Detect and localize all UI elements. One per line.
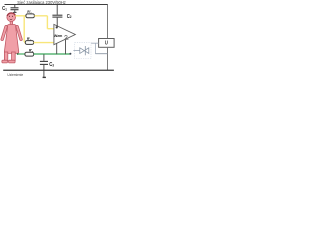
capacitor C1 [11,5,19,13]
C2 lead inside amp [56,25,58,27]
green wire end tip [69,53,71,55]
right foot [9,60,16,63]
squiggle mark inside amp [65,35,69,39]
electrode box A [26,14,35,18]
svg-text:Uziemienie: Uziemienie [7,73,23,77]
wire amp ground pin 2 to green [65,40,67,54]
hair [7,13,15,16]
wire yellow lead B to amp [34,42,54,44]
isolation symbol bowtie [80,48,89,54]
right arm [16,25,23,41]
isolation symbol stub left [73,50,79,52]
wire mains line top [5,4,108,6]
svg-text:Wzm: Wzm [54,34,63,38]
wire isolation to ground branch [91,43,99,54]
junction body-green [17,53,19,55]
electrode box B [25,41,33,45]
wire yellow lead A to amp [34,16,53,29]
face features [9,16,13,20]
earth line [3,69,114,71]
junction dot C2 on + input [56,26,58,28]
neck [10,21,12,25]
source box U [99,39,115,48]
svg-text:C1: C1 [2,6,7,13]
svg-text:Sieć zasilająca 230V/50Hz: Sieć zasilająca 230V/50Hz [17,0,65,5]
earth bar [43,76,46,78]
earth stub below ground [43,70,45,77]
wire U box to earth [107,47,109,70]
left leg [4,52,7,61]
head [7,13,16,22]
op-amp Wzm (amplifier) [54,24,75,44]
wire ground return horizontal [95,53,107,55]
electrode pad on head [13,11,16,13]
svg-text:C2: C2 [67,13,72,20]
capacitor C2 [52,5,62,28]
right leg [12,52,16,61]
torso [4,25,18,54]
left arm [1,25,8,41]
wire green to isolation [34,53,71,55]
wire yellow branch to electrode B [24,16,25,43]
electrode box C [25,52,34,56]
wire mains drop right [107,5,109,39]
isolation barrier dashed box [75,43,91,59]
left foot [2,60,8,63]
person body (patient) [1,13,23,63]
capacitor C3 (body to earth) [40,54,48,70]
wire amp common to green [56,43,58,54]
wire yellow electrode lead A (head to box A) [15,15,26,17]
isolation symbol bar [84,46,86,55]
svg-text:C3: C3 [49,62,54,69]
wire green ground electrode lead (body to box C) [17,53,25,55]
